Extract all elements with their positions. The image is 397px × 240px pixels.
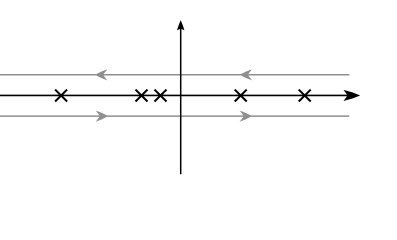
upper contour arrowhead 1 (left-pointing dart) (95, 69, 108, 80)
pole x1 (55, 90, 67, 102)
real axis (horizontal black line) (0, 94, 350, 96)
real axis arrowhead (right-pointing) (344, 90, 361, 101)
lower contour arrowhead 2 (right-pointing dart) (240, 111, 253, 122)
pole x5 (299, 90, 311, 102)
imaginary axis arrowhead (up-pointing) (177, 20, 185, 30)
imaginary axis (vertical black line) (180, 27, 182, 174)
pole x3 (155, 90, 167, 102)
lower contour arrowhead 1 (right-pointing dart) (96, 111, 109, 122)
pole x4 (235, 90, 247, 102)
pole x2 (136, 90, 148, 102)
lower contour line (rightward path below real axis) (0, 115, 349, 117)
upper contour line (leftward path above real axis) (0, 74, 349, 76)
upper contour arrowhead 2 (left-pointing dart) (240, 69, 253, 80)
